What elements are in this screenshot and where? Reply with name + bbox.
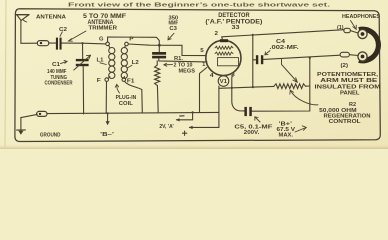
svg-text:MEGS: MEGS bbox=[179, 68, 196, 74]
wire pin 4 to rail bbox=[200, 68, 207, 113]
wire phones return down to rail corner bbox=[252, 58, 310, 111]
phone jack 2 bbox=[358, 52, 367, 61]
label HEADPHONES bbox=[342, 14, 380, 20]
tube internal grid zigzags bbox=[215, 46, 233, 55]
svg-text:’B–’: ’B–’ bbox=[100, 132, 115, 138]
headphone insulator oval 2 bbox=[340, 52, 349, 57]
svg-text:COIL: COIL bbox=[119, 101, 134, 107]
ground bus wire bbox=[21, 112, 219, 117]
coil terminal G bbox=[106, 42, 110, 46]
C4 label arrow bbox=[265, 51, 270, 55]
label C1 140 MMF TUNING CONDENSER bbox=[45, 62, 73, 87]
svg-text:V1: V1 bbox=[220, 79, 228, 85]
A battery minus lead bbox=[176, 111, 194, 121]
label DETECTOR A.F. PENTODE 33 bbox=[205, 13, 262, 31]
wire C1 down to ground rail bbox=[82, 66, 84, 114]
label C2 bbox=[59, 27, 67, 33]
tube base circle V1 bbox=[218, 76, 229, 87]
L2 label arrow bbox=[127, 65, 132, 68]
wire C3 to tube pin 1 bbox=[159, 58, 207, 62]
svg-text:MAX.: MAX. bbox=[279, 133, 294, 139]
antenna lead-in insulator bbox=[37, 41, 49, 46]
R2 label arrow curve bbox=[290, 90, 318, 105]
variable capacitor C1 tuning condenser bbox=[74, 55, 91, 70]
label PLUG-IN COIL bbox=[116, 95, 137, 107]
svg-text:C1: C1 bbox=[52, 62, 61, 68]
coil winding L2 bbox=[121, 46, 127, 79]
svg-text:TRIMMER: TRIMMER bbox=[89, 26, 118, 32]
border frame bbox=[15, 9, 380, 142]
label 5 TO 70 MMF ANTENNA TRIMMER bbox=[83, 13, 126, 32]
svg-text:R1.: R1. bbox=[174, 56, 183, 62]
plate wire tube cap to headphones bbox=[222, 30, 344, 37]
plug-in coil label arrow bbox=[115, 84, 119, 93]
label ANTENNA bbox=[36, 14, 67, 20]
ground symbol bbox=[17, 118, 26, 135]
wire F1 curve down to rail bbox=[125, 81, 143, 112]
tube V1 envelope bbox=[206, 40, 241, 75]
label F bbox=[97, 78, 102, 84]
svg-text:2V, ’A’: 2V, ’A’ bbox=[159, 124, 174, 130]
wire tube base to rail A+ branch bbox=[218, 86, 220, 113]
label G bbox=[99, 37, 104, 43]
label (2) bbox=[341, 63, 349, 69]
caption: Front view of the Beginner's one-tube shortwave set. bbox=[68, 3, 331, 9]
svg-text:(2): (2) bbox=[341, 63, 349, 69]
B+ label arrow bbox=[295, 126, 306, 132]
wire insulator to C2 bbox=[49, 42, 56, 44]
antenna symbol bbox=[16, 15, 29, 44]
blocking capacitor C5 bbox=[244, 107, 251, 116]
svg-text:C3: C3 bbox=[169, 26, 177, 32]
coil terminal F1 bbox=[122, 78, 126, 82]
wire F down to rail bbox=[105, 82, 107, 114]
coil terminal P bbox=[125, 42, 129, 46]
svg-text:CONDENSER: CONDENSER bbox=[45, 81, 73, 87]
pin label 4 bbox=[210, 73, 215, 79]
C3 label arrow bbox=[168, 33, 174, 40]
label L1 bbox=[97, 58, 105, 64]
svg-text:C2: C2 bbox=[59, 27, 67, 33]
wire oval to jack 1 bbox=[350, 31, 358, 33]
svg-text:C4: C4 bbox=[276, 39, 286, 45]
jumper wire G over to C3 bbox=[108, 37, 161, 52]
svg-text:.002-MF.: .002-MF. bbox=[269, 45, 299, 51]
svg-text:POTENTIOMETER,: POTENTIOMETER, bbox=[317, 72, 378, 78]
label V1 bbox=[220, 79, 228, 85]
wire antenna to insulator bbox=[21, 42, 37, 44]
wire C2 to grid junction bbox=[62, 42, 106, 44]
svg-text:ANTENNA: ANTENNA bbox=[36, 14, 67, 20]
phone jack 1 bbox=[358, 29, 367, 38]
svg-text:F1: F1 bbox=[127, 78, 135, 84]
svg-text:DETECTOR: DETECTOR bbox=[218, 13, 250, 19]
svg-text:CONTROL: CONTROL bbox=[329, 119, 362, 125]
label POTENTIOMETER ARM MUST BE INSULATED FROM PANEL bbox=[315, 72, 381, 97]
wire C4 right to phone jack 2 bbox=[263, 55, 340, 59]
label P bbox=[129, 36, 133, 42]
svg-text:(1): (1) bbox=[337, 25, 344, 31]
A plus polarity mark bbox=[182, 131, 186, 135]
regeneration potentiometer R2 bbox=[274, 84, 310, 89]
wire junction down to C1 bbox=[82, 43, 84, 59]
label 350 MMF C3 bbox=[169, 15, 179, 32]
headphone insulator oval 1 bbox=[344, 28, 351, 32]
svg-text:PANEL: PANEL bbox=[340, 91, 360, 97]
svg-text:L2: L2 bbox=[132, 60, 139, 66]
C5 label arrow bbox=[255, 117, 260, 122]
svg-text:200V.: 200V. bbox=[244, 130, 260, 136]
C2 label arrow bbox=[60, 32, 62, 37]
pin label 3 bbox=[231, 72, 236, 78]
label GROUND bbox=[40, 133, 61, 139]
bypass capacitor C4 bbox=[256, 55, 263, 64]
pin label 1 bbox=[202, 62, 206, 68]
headphones label arrow bbox=[351, 21, 357, 30]
C1 label arrow bbox=[61, 60, 68, 63]
coil winding L1 bbox=[108, 45, 115, 78]
label B- bbox=[100, 132, 115, 138]
label R1 2 TO 10 MEGS bbox=[174, 56, 196, 74]
capacitor C2 antenna trimmer bbox=[56, 38, 62, 50]
svg-text:ARM MUST BE: ARM MUST BE bbox=[320, 78, 377, 84]
wire jack 2 to insulator oval 2 bbox=[349, 54, 358, 57]
R1 label arrow bbox=[164, 63, 173, 66]
A battery plus lead bbox=[189, 113, 219, 130]
grid leak resistor R1 bbox=[155, 61, 160, 112]
L1 label arrow bbox=[100, 63, 106, 65]
svg-text:33: 33 bbox=[232, 25, 241, 31]
label C4 .002-MF bbox=[269, 39, 299, 51]
coil terminal F bbox=[105, 78, 109, 82]
paper background bbox=[0, 0, 388, 149]
svg-text:P: P bbox=[129, 36, 133, 42]
trimmer label arrow bbox=[69, 31, 87, 41]
grid capacitor C3 bbox=[152, 52, 166, 58]
label R2 50,000 OHM REGENERATION CONTROL bbox=[319, 102, 370, 125]
svg-text:GROUND: GROUND bbox=[40, 133, 61, 139]
label L2 bbox=[132, 60, 139, 66]
tube top cap bbox=[220, 37, 228, 42]
B- lead stub bbox=[106, 112, 110, 125]
screen wire to R2 bbox=[219, 86, 274, 89]
label B+ 67.5V MAX bbox=[277, 121, 296, 138]
tube internal plate box bbox=[218, 58, 239, 66]
svg-text:5 TO 70 MMF: 5 TO 70 MMF bbox=[83, 13, 126, 20]
wire pin 3 down to C5 bbox=[232, 75, 245, 111]
label 2V A bbox=[159, 124, 174, 130]
label (1) bbox=[337, 25, 344, 31]
label C5 0.1-MF 200V bbox=[234, 124, 273, 136]
R2 wiper arm arrow bbox=[282, 59, 298, 83]
A minus polarity mark bbox=[180, 115, 184, 117]
svg-text:G: G bbox=[99, 37, 104, 43]
svg-text:Front view of the Beginner’s o: Front view of the Beginner’s one-tube sh… bbox=[68, 3, 331, 9]
svg-text:F: F bbox=[97, 78, 102, 84]
svg-text:HEADPHONES: HEADPHONES bbox=[342, 14, 380, 20]
svg-text:2: 2 bbox=[215, 31, 219, 37]
ground insulator oval bbox=[37, 111, 47, 116]
pin label 2 bbox=[215, 31, 219, 37]
label F1 bbox=[127, 78, 135, 84]
pin label 5 bbox=[200, 48, 204, 54]
wire C4 left to plate line and down to screen wire bbox=[252, 34, 256, 87]
headphone earpiece crescent bbox=[358, 27, 381, 64]
wire P to tube pin 5 bbox=[128, 44, 206, 56]
